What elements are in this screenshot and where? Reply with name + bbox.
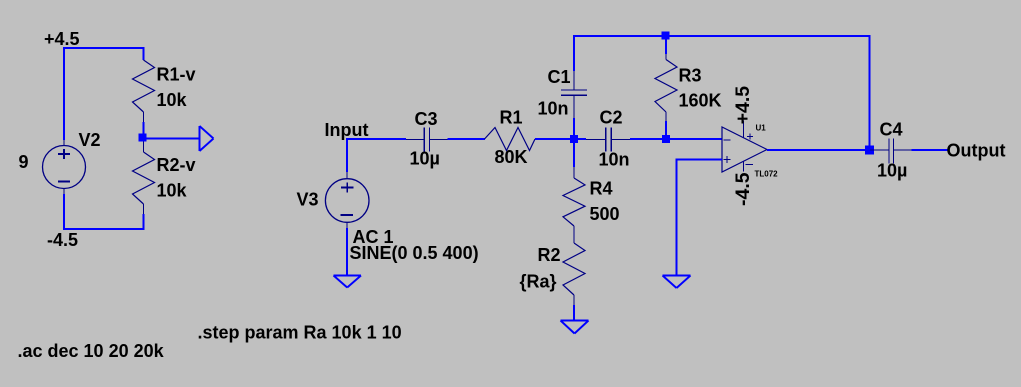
- svg-text:Input: Input: [325, 120, 369, 140]
- svg-text:10n: 10n: [538, 99, 569, 119]
- svg-text:C2: C2: [600, 107, 623, 127]
- svg-text:R2-v: R2-v: [157, 155, 196, 175]
- svg-text:-4.5: -4.5: [732, 172, 754, 206]
- svg-text:10k: 10k: [157, 90, 188, 110]
- svg-text:R1: R1: [500, 107, 523, 127]
- svg-text:R3: R3: [679, 66, 702, 86]
- svg-text:500: 500: [590, 204, 620, 224]
- svg-text:R1-v: R1-v: [157, 65, 196, 85]
- svg-text:-4.5: -4.5: [47, 230, 78, 250]
- svg-text:.ac dec 10 20 20k: .ac dec 10 20 20k: [18, 341, 165, 361]
- svg-text:TL072: TL072: [755, 169, 779, 178]
- svg-text:V2: V2: [79, 130, 101, 150]
- svg-text:C3: C3: [415, 109, 438, 129]
- svg-text:10n: 10n: [599, 149, 630, 169]
- svg-text:10k: 10k: [157, 181, 188, 201]
- svg-text:10µ: 10µ: [410, 149, 440, 169]
- svg-text:+4.5: +4.5: [44, 29, 80, 49]
- svg-text:Output: Output: [947, 141, 1006, 161]
- svg-text:.step param Ra 10k 1 10: .step param Ra 10k 1 10: [198, 323, 402, 343]
- svg-text:U1: U1: [756, 124, 767, 133]
- svg-text:{Ra}: {Ra}: [520, 271, 557, 291]
- svg-text:C4: C4: [880, 119, 903, 139]
- svg-text:9: 9: [19, 152, 29, 172]
- svg-text:V3: V3: [297, 190, 319, 210]
- svg-text:160K: 160K: [679, 91, 722, 111]
- svg-text:R2: R2: [538, 245, 561, 265]
- svg-text:SINE(0 0.5 400): SINE(0 0.5 400): [350, 243, 479, 263]
- svg-text:10µ: 10µ: [877, 161, 907, 181]
- svg-text:R4: R4: [590, 179, 613, 199]
- svg-text:80K: 80K: [495, 147, 528, 167]
- svg-text:C1: C1: [548, 67, 571, 87]
- svg-text:+4.5: +4.5: [732, 86, 754, 125]
